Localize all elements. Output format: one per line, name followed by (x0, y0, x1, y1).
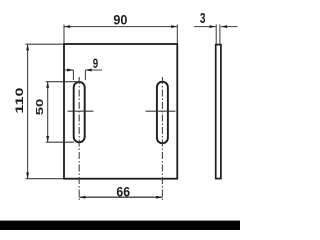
plate front view outline (64, 44, 177, 179)
dim 3 arrow left (210, 25, 216, 28)
dim 110 extension line top (26, 43, 64, 45)
dim 3 arrow right (221, 25, 227, 28)
dim 50 extension line top (46, 81, 80, 83)
center line left slot vertical (78, 77, 80, 200)
svg-text:3: 3 (200, 11, 206, 27)
svg-text:90: 90 (113, 12, 127, 28)
dim 90 arrow right (171, 25, 177, 28)
slot left (74, 82, 85, 142)
dim 9 line left segment (64, 69, 73, 71)
dim 3 extension line left (215, 25, 217, 45)
dim 90 extension line left (63, 25, 65, 44)
dim 9 arrow right (85, 69, 91, 72)
dim 110 line (27, 44, 29, 179)
dim 66 arrow left (79, 196, 85, 199)
dim 110 extension line bottom (26, 178, 64, 180)
dim 50 line (47, 82, 49, 143)
dim 3 line left segment (194, 26, 216, 28)
dim 9 arrow left (67, 69, 73, 72)
dim 90 arrow left (64, 25, 70, 28)
bottom black bar (0, 221, 240, 230)
center line right slot vertical (161, 77, 163, 200)
dim 9 extension line right (84, 70, 86, 80)
center line right slot horizontal (146, 110, 176, 112)
dim 110 arrow top (26, 44, 29, 50)
center line left slot horizontal (68, 110, 94, 112)
svg-text:9: 9 (93, 55, 99, 71)
dim 66 line (79, 196, 162, 198)
dim 110 arrow bottom (26, 173, 29, 179)
dim 90 extension line right (176, 25, 178, 44)
side view bar outline (216, 45, 221, 179)
dim 50 arrow top (46, 82, 49, 88)
dim 50 extension line bottom (46, 141, 74, 143)
svg-text:50: 50 (35, 98, 46, 115)
dim 3 line right segment (221, 26, 238, 28)
dim 66 arrow right (156, 196, 162, 199)
dim 9 extension line left (72, 70, 74, 80)
dim 50 arrow bottom (46, 136, 49, 142)
dim 9 line right segment (85, 69, 102, 71)
slot right (157, 82, 168, 144)
svg-text:66: 66 (116, 184, 130, 200)
dim 3 extension line right (219, 25, 221, 45)
svg-text:110: 110 (14, 88, 26, 114)
dim 90 line (64, 26, 177, 28)
